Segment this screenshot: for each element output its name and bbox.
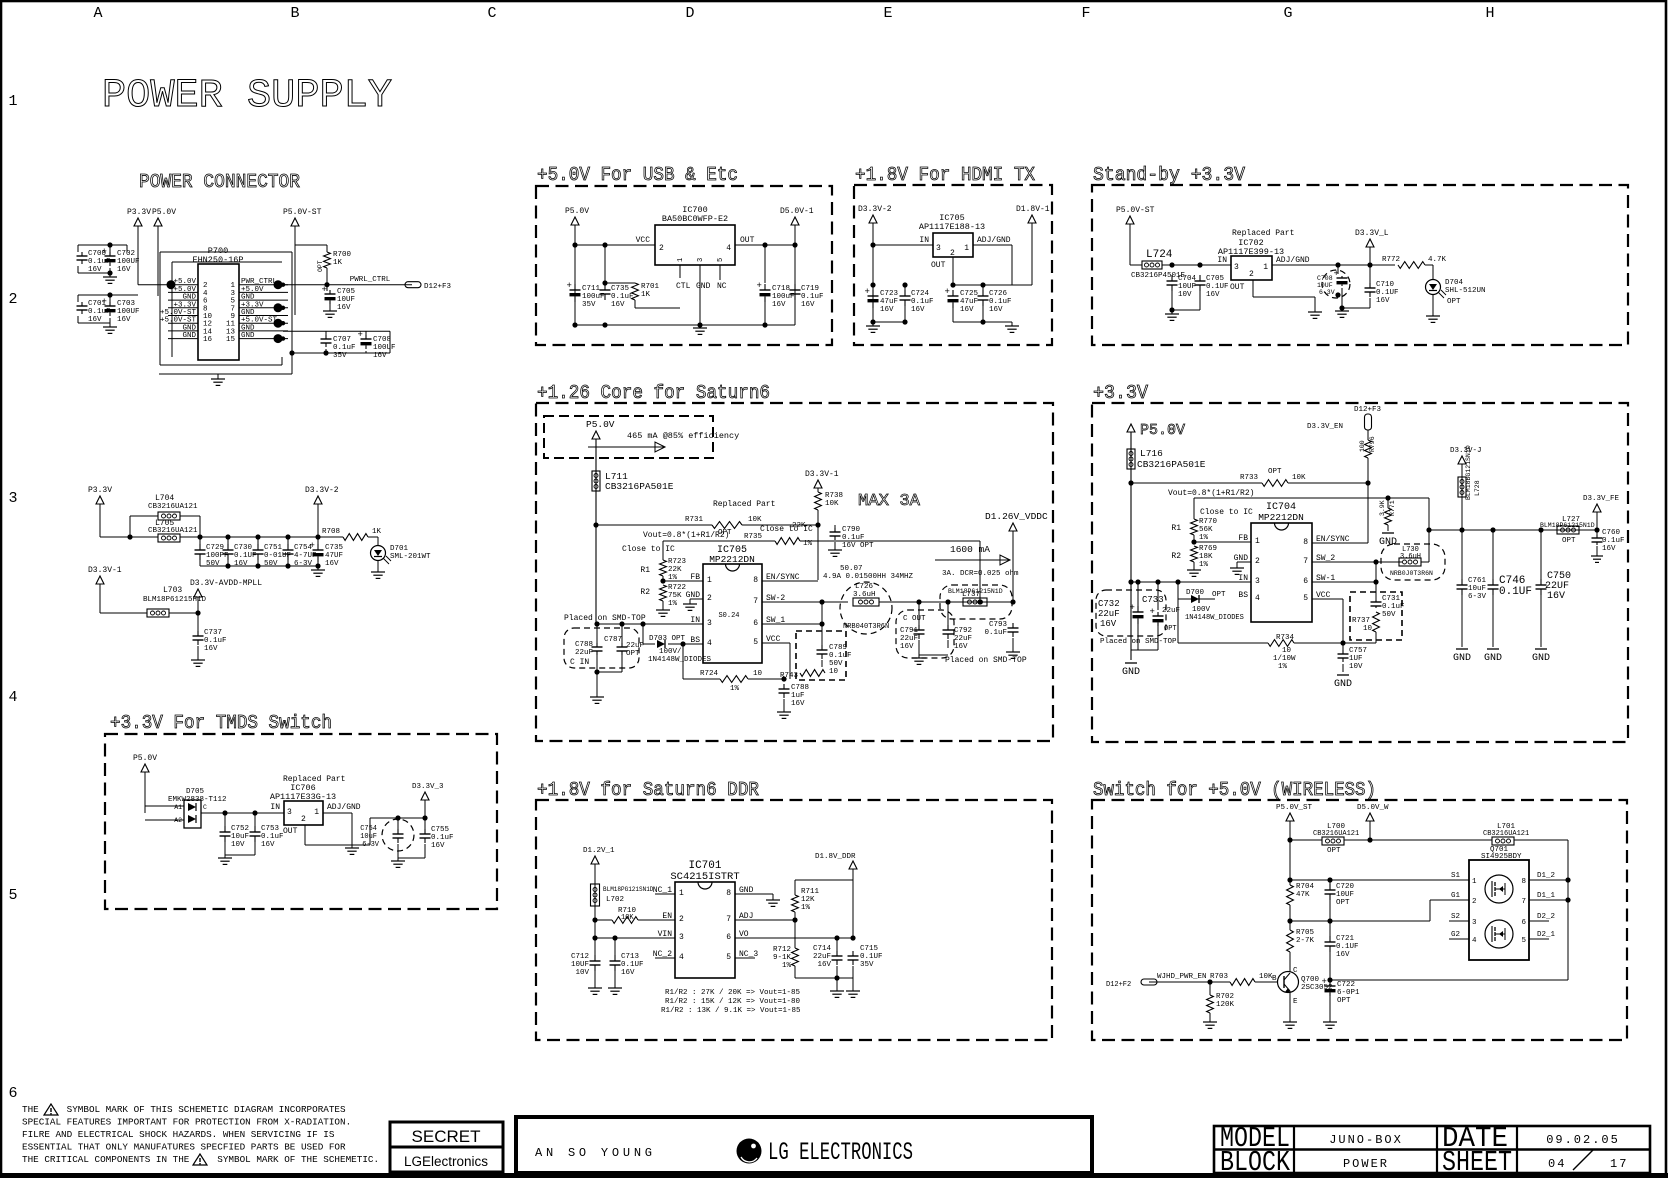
- svg-text:D3.3V-AVDD-MPLL: D3.3V-AVDD-MPLL: [190, 579, 262, 588]
- svg-text:OUT: OUT: [1230, 283, 1245, 292]
- svg-text:BLM18PG121SN1D: BLM18PG121SN1D: [603, 886, 654, 893]
- svg-text:0.1UF: 0.1UF: [1336, 943, 1359, 951]
- svg-text:16V: 16V: [1547, 591, 1565, 602]
- svg-text:0.1UF: 0.1UF: [1376, 289, 1399, 297]
- svg-text:+1.26 Core for Saturn6: +1.26 Core for Saturn6: [537, 382, 770, 404]
- svg-text:C702: C702: [117, 250, 135, 258]
- svg-text:C: C: [203, 804, 207, 811]
- svg-text:1%: 1%: [1199, 561, 1209, 569]
- svg-text:16V: 16V: [960, 306, 974, 314]
- svg-text:L702: L702: [606, 896, 624, 904]
- svg-text:C735: C735: [325, 544, 344, 552]
- svg-text:POWER CONNECTOR: POWER CONNECTOR: [139, 171, 300, 193]
- svg-text:0.1uF: 0.1uF: [333, 344, 356, 352]
- svg-text:D2_2: D2_2: [1537, 913, 1555, 921]
- svg-text:10UF: 10UF: [1336, 891, 1354, 899]
- svg-text:C718: C718: [772, 285, 790, 293]
- svg-text:ADJ/GND: ADJ/GND: [1276, 256, 1310, 265]
- svg-text:4: 4: [679, 953, 684, 962]
- svg-text:R2: R2: [1171, 552, 1181, 561]
- svg-text:MP2212DN: MP2212DN: [1258, 512, 1304, 523]
- svg-text:OPT: OPT: [1447, 298, 1461, 306]
- svg-text:16V: 16V: [880, 306, 894, 314]
- svg-text:OPT: OPT: [1164, 625, 1177, 633]
- svg-text:C757: C757: [1349, 647, 1367, 655]
- svg-text:P3.3V: P3.3V: [88, 486, 112, 495]
- svg-text:CTL: CTL: [676, 282, 691, 291]
- svg-text:+: +: [1130, 603, 1135, 613]
- svg-text:8: 8: [753, 576, 758, 585]
- svg-text:4.7K: 4.7K: [1428, 256, 1447, 264]
- svg-text:3: 3: [1234, 263, 1239, 272]
- svg-text:D12+F3: D12+F3: [1354, 406, 1382, 414]
- svg-text:C722: C722: [1337, 981, 1355, 989]
- svg-text:3: 3: [1255, 577, 1260, 586]
- svg-text:A: A: [93, 5, 102, 22]
- svg-text:G1: G1: [1451, 892, 1461, 900]
- svg-text:22uF: 22uF: [626, 642, 644, 650]
- svg-text:AN SO YOUNG: AN SO YOUNG: [535, 1146, 652, 1160]
- svg-text:16V: 16V: [954, 643, 968, 651]
- svg-text:3: 3: [287, 808, 292, 817]
- svg-text:50V: 50V: [829, 660, 843, 668]
- svg-text:2: 2: [301, 815, 306, 824]
- svg-text:5: 5: [1303, 594, 1308, 603]
- svg-text:C760: C760: [1602, 529, 1621, 537]
- svg-text:+1.8V for Saturn6 DDR: +1.8V for Saturn6 DDR: [537, 779, 759, 801]
- svg-text:R712: R712: [773, 946, 791, 954]
- svg-text:R1/R2 : 13K / 9.1K => Vout=1-8: R1/R2 : 13K / 9.1K => Vout=1-85: [661, 1007, 801, 1015]
- svg-text:L704: L704: [155, 494, 174, 503]
- svg-text:D1_2: D1_2: [1537, 872, 1555, 880]
- svg-text:E: E: [1293, 998, 1298, 1006]
- svg-text:16V: 16V: [911, 306, 925, 314]
- svg-text:R737: R737: [1352, 617, 1370, 625]
- svg-text:POWER SUPPLY: POWER SUPPLY: [102, 74, 392, 119]
- svg-text:C719: C719: [801, 285, 819, 293]
- svg-text:OPT: OPT: [1562, 537, 1576, 545]
- svg-text:0.1UF: 0.1UF: [1206, 283, 1229, 291]
- svg-text:Replaced Part: Replaced Part: [713, 500, 775, 509]
- svg-text:C701: C701: [88, 300, 107, 308]
- svg-text:IN: IN: [1217, 256, 1227, 265]
- svg-text:2: 2: [8, 291, 17, 308]
- svg-text:04: 04: [1548, 1157, 1566, 1171]
- svg-text:0.1uF: 0.1uF: [1382, 603, 1405, 611]
- svg-text:1: 1: [707, 576, 712, 585]
- svg-text:+: +: [310, 541, 315, 551]
- svg-text:Close to IC: Close to IC: [1200, 508, 1253, 517]
- svg-text:R771: R771: [1389, 500, 1396, 516]
- svg-text:2: 2: [950, 249, 955, 258]
- svg-text:1UF: 1UF: [1349, 655, 1363, 663]
- svg-text:P5.0V: P5.0V: [152, 208, 176, 217]
- svg-text:C712: C712: [571, 953, 589, 961]
- svg-text:10K: 10K: [748, 516, 762, 524]
- svg-text:D3.3V_EN: D3.3V_EN: [1307, 423, 1343, 431]
- svg-text:+: +: [358, 330, 363, 340]
- svg-text:SHEET: SHEET: [1442, 1146, 1512, 1178]
- svg-text:C714: C714: [813, 945, 832, 953]
- svg-text:+5.0V For USB & Etc: +5.0V For USB & Etc: [537, 164, 738, 186]
- svg-text:D5.0V_W: D5.0V_W: [1357, 804, 1389, 812]
- svg-text:16V: 16V: [817, 961, 831, 969]
- svg-text:1K: 1K: [333, 259, 343, 267]
- svg-text:R1/R2 : 27K / 20K => Vout=1-85: R1/R2 : 27K / 20K => Vout=1-85: [665, 989, 801, 997]
- svg-text:Placed on SMD-TOP: Placed on SMD-TOP: [564, 614, 646, 623]
- svg-text:C755: C755: [431, 826, 450, 834]
- svg-text:2: 2: [1255, 557, 1260, 566]
- svg-text:10: 10: [1282, 647, 1292, 655]
- svg-text:L716: L716: [1140, 448, 1163, 459]
- svg-text:C OUT: C OUT: [903, 615, 926, 623]
- svg-text:R722: R722: [668, 584, 686, 592]
- svg-text:6-3V: 6-3V: [294, 560, 313, 568]
- svg-text:6-3V: 6-3V: [1319, 289, 1335, 296]
- svg-text:+: +: [945, 287, 950, 297]
- svg-text:16V: 16V: [621, 969, 635, 977]
- svg-text:16V: 16V: [431, 842, 445, 850]
- svg-text:16V: 16V: [204, 645, 218, 653]
- svg-text:3: 3: [936, 244, 941, 253]
- svg-text:4: 4: [707, 639, 712, 648]
- svg-text:1N4148W_DIODES: 1N4148W_DIODES: [648, 656, 712, 664]
- svg-text:OPT: OPT: [1268, 468, 1282, 476]
- svg-text:C752: C752: [231, 825, 249, 833]
- svg-text:BS: BS: [1238, 591, 1248, 600]
- svg-text:R735: R735: [744, 533, 763, 541]
- svg-text:10V: 10V: [575, 969, 589, 977]
- svg-text:SPECIAL FEATURES IMPORTANT FOR: SPECIAL FEATURES IMPORTANT FOR PROTECTIO…: [22, 1117, 351, 1128]
- svg-text:12K: 12K: [801, 896, 815, 904]
- svg-text:D703 OPT: D703 OPT: [649, 635, 686, 643]
- svg-text:5: 5: [717, 258, 725, 262]
- svg-text:C730: C730: [234, 544, 253, 552]
- svg-text:10V: 10V: [1178, 291, 1192, 299]
- svg-text:Stand-by +3.3V: Stand-by +3.3V: [1093, 164, 1246, 186]
- svg-text:22uF: 22uF: [575, 649, 593, 657]
- svg-text:10UF: 10UF: [1317, 282, 1333, 289]
- svg-text:C721: C721: [1336, 935, 1355, 943]
- svg-text:6: 6: [726, 933, 731, 942]
- svg-text:OPT: OPT: [1212, 591, 1226, 599]
- svg-text:1uF: 1uF: [791, 692, 805, 700]
- svg-text:22uF: 22uF: [900, 635, 918, 643]
- svg-text:+: +: [567, 281, 572, 291]
- svg-text:GND: GND: [1379, 537, 1397, 548]
- svg-text:D705: D705: [186, 788, 205, 796]
- svg-text:VCC: VCC: [636, 236, 651, 245]
- svg-text:10UF: 10UF: [571, 961, 589, 969]
- svg-text:R1: R1: [640, 566, 650, 575]
- svg-text:C732: C732: [1098, 599, 1120, 609]
- svg-text:+: +: [1150, 607, 1155, 617]
- svg-text:2: 2: [659, 244, 664, 253]
- svg-text:6: 6: [1303, 577, 1308, 586]
- svg-text:ADJ/GND: ADJ/GND: [977, 236, 1011, 245]
- svg-text:R723: R723: [668, 558, 687, 566]
- svg-text:2: 2: [707, 594, 712, 603]
- svg-text:D12+F2: D12+F2: [1106, 981, 1131, 989]
- svg-text:2: 2: [1472, 898, 1477, 906]
- svg-text:47uF: 47uF: [960, 298, 978, 306]
- svg-text:R738: R738: [825, 492, 843, 500]
- svg-text:15: 15: [226, 336, 236, 344]
- svg-text:C754: C754: [360, 825, 377, 833]
- svg-text:D1.2V_1: D1.2V_1: [583, 847, 615, 855]
- svg-text:C788: C788: [575, 641, 593, 649]
- svg-text:16V: 16V: [1100, 619, 1117, 629]
- svg-text:5: 5: [8, 887, 17, 904]
- svg-text:CB3216PA501E: CB3216PA501E: [1137, 459, 1206, 470]
- svg-text:D3.3V-2: D3.3V-2: [305, 486, 339, 495]
- svg-text:0.1UF: 0.1UF: [1499, 586, 1532, 598]
- svg-text:1: 1: [1472, 878, 1477, 886]
- svg-text:+: +: [865, 287, 870, 297]
- svg-text:D1_1: D1_1: [1537, 892, 1556, 900]
- svg-text:0.1uF: 0.1uF: [88, 308, 111, 316]
- svg-text:50V: 50V: [1382, 611, 1396, 619]
- svg-text:4: 4: [726, 244, 731, 253]
- svg-text:16V: 16V: [1336, 951, 1350, 959]
- svg-text:C733: C733: [1142, 595, 1164, 605]
- svg-text:C715: C715: [860, 945, 879, 953]
- svg-text:100UF: 100UF: [373, 344, 396, 352]
- svg-text:A2: A2: [174, 817, 182, 824]
- svg-text:6-0P1: 6-0P1: [1337, 989, 1360, 997]
- svg-text:22uF: 22uF: [954, 635, 972, 643]
- svg-text:FB: FB: [690, 573, 700, 582]
- svg-text:C725: C725: [960, 290, 979, 298]
- svg-text:BLM18P61215H1D: BLM18P61215H1D: [143, 596, 207, 604]
- svg-text:L726: L726: [855, 583, 874, 591]
- svg-text:1%: 1%: [801, 904, 811, 912]
- svg-text:C724: C724: [911, 290, 930, 298]
- svg-text:OPT: OPT: [1327, 847, 1341, 855]
- svg-text:D12+F3: D12+F3: [424, 283, 452, 291]
- svg-text:CB3216UA121: CB3216UA121: [148, 503, 198, 511]
- svg-text:LGElectronics: LGElectronics: [404, 1154, 488, 1169]
- svg-text:100: 100: [1359, 440, 1366, 452]
- svg-text:P5.0V: P5.0V: [133, 754, 157, 763]
- svg-text:OPT: OPT: [1336, 899, 1350, 907]
- svg-text:16V: 16V: [1602, 545, 1616, 553]
- svg-text:+: +: [322, 285, 327, 295]
- svg-text:16V: 16V: [791, 700, 805, 708]
- svg-text:17: 17: [1610, 1157, 1628, 1171]
- svg-text:L728: L728: [1474, 480, 1481, 496]
- svg-text:10: 10: [1363, 625, 1373, 633]
- svg-text:4: 4: [1255, 594, 1260, 603]
- svg-text:C788: C788: [791, 684, 809, 692]
- svg-text:L724: L724: [1146, 249, 1173, 261]
- svg-text:G: G: [1283, 5, 1292, 22]
- svg-text:D704: D704: [1445, 279, 1464, 287]
- svg-text:5: 5: [753, 638, 758, 647]
- svg-text:R1: R1: [1171, 524, 1181, 533]
- svg-text:GND: GND: [1334, 679, 1352, 690]
- svg-text:BLM18BG121SN1D: BLM18BG121SN1D: [1465, 445, 1472, 500]
- svg-text:E: E: [883, 5, 892, 22]
- svg-text:R711: R711: [801, 888, 820, 896]
- svg-text:R769: R769: [1199, 545, 1217, 553]
- svg-text:EHN250-16P: EHN250-16P: [192, 255, 243, 265]
- svg-text:3.9K: 3.9K: [1379, 500, 1386, 516]
- svg-text:D2_1: D2_1: [1537, 931, 1556, 939]
- svg-text:C789: C789: [829, 644, 847, 652]
- svg-text:P5.0V-ST: P5.0V-ST: [283, 208, 322, 217]
- svg-text:10uF: 10uF: [1468, 585, 1486, 593]
- svg-text:8: 8: [1303, 538, 1308, 547]
- svg-text:D3.3V_FE: D3.3V_FE: [1583, 495, 1620, 503]
- svg-text:GND: GND: [1532, 653, 1550, 664]
- svg-text:C707: C707: [333, 336, 351, 344]
- svg-text:+3.3V For TMDS Switch: +3.3V For TMDS Switch: [110, 712, 332, 734]
- svg-text:C790: C790: [842, 526, 861, 534]
- svg-text:16V: 16V: [117, 316, 131, 324]
- svg-text:1600 mA: 1600 mA: [950, 544, 990, 555]
- svg-text:C IN: C IN: [570, 658, 589, 667]
- svg-text:OUT: OUT: [931, 261, 946, 270]
- svg-text:OUT: OUT: [283, 827, 298, 836]
- svg-text:4: 4: [8, 689, 17, 706]
- svg-text:MAX 3A: MAX 3A: [858, 492, 921, 511]
- svg-text:GND: GND: [1453, 653, 1471, 664]
- svg-text:WJHD_PWR_EN: WJHD_PWR_EN: [1157, 973, 1207, 981]
- svg-text:3: 3: [8, 490, 17, 507]
- svg-text:50.07: 50.07: [840, 565, 863, 573]
- svg-text:D1.8V-1: D1.8V-1: [1016, 205, 1050, 214]
- svg-text:Placed on SMD-TOP: Placed on SMD-TOP: [945, 656, 1027, 665]
- svg-text:16V: 16V: [337, 304, 351, 312]
- svg-text:+: +: [1334, 269, 1339, 279]
- svg-text:R770: R770: [1199, 518, 1218, 526]
- svg-text:D3.3V_L: D3.3V_L: [1355, 229, 1389, 238]
- svg-text:6-3V: 6-3V: [362, 841, 380, 849]
- svg-text:C713: C713: [621, 953, 640, 961]
- svg-text:100UF: 100UF: [117, 258, 140, 266]
- svg-text:1: 1: [677, 258, 685, 262]
- svg-text:6: 6: [1521, 919, 1526, 927]
- svg-text:1N4148W_DIODES: 1N4148W_DIODES: [1185, 614, 1244, 622]
- svg-text:4: 4: [1472, 937, 1477, 945]
- svg-text:7: 7: [1521, 898, 1526, 906]
- svg-text:0.1uF: 0.1uF: [431, 834, 454, 842]
- svg-text:100PF: 100PF: [206, 552, 229, 560]
- svg-text:SML-201WT: SML-201WT: [390, 553, 431, 561]
- svg-text:09.02.05: 09.02.05: [1546, 1133, 1620, 1147]
- svg-text:P5.0V-ST: P5.0V-ST: [1116, 206, 1155, 215]
- svg-text:R1/R2 : 15K / 12K => Vout=1-80: R1/R2 : 15K / 12K => Vout=1-80: [665, 998, 801, 1006]
- svg-text:1: 1: [964, 244, 969, 253]
- svg-text:22K: 22K: [792, 522, 806, 530]
- svg-text:POWER: POWER: [1343, 1157, 1389, 1171]
- svg-text:4.9A 0.01500HH 34MHZ: 4.9A 0.01500HH 34MHZ: [823, 573, 914, 581]
- svg-text:3: 3: [679, 933, 684, 942]
- svg-text:1/10W: 1/10W: [1273, 655, 1296, 663]
- svg-text:10K: 10K: [825, 500, 839, 508]
- svg-text:D3.3V-2: D3.3V-2: [858, 205, 892, 214]
- svg-text:16: 16: [203, 336, 213, 344]
- svg-text:5: 5: [1521, 937, 1526, 945]
- svg-text:C737: C737: [204, 629, 222, 637]
- svg-text:0.1UF: 0.1UF: [860, 953, 883, 961]
- svg-text:AP1117E188-13: AP1117E188-13: [919, 222, 985, 232]
- svg-text:47UF: 47UF: [325, 552, 343, 560]
- svg-text:2: 2: [679, 915, 684, 924]
- svg-text:P3.3V: P3.3V: [127, 208, 151, 217]
- svg-text:16V: 16V: [772, 301, 786, 309]
- svg-text:Placed on SMD-TOP: Placed on SMD-TOP: [1100, 638, 1177, 646]
- svg-text:FB: FB: [1238, 534, 1248, 543]
- svg-text:C723: C723: [880, 290, 899, 298]
- svg-text:BLOCK: BLOCK: [1220, 1146, 1290, 1178]
- svg-text:PWRL_CTRL: PWRL_CTRL: [350, 276, 391, 284]
- svg-text:47K: 47K: [1296, 891, 1310, 899]
- svg-text:0.1uF: 0.1uF: [261, 833, 284, 841]
- svg-text:C751: C751: [264, 544, 283, 552]
- svg-text:0.1uF: 0.1uF: [829, 652, 852, 660]
- svg-text:9-1K: 9-1K: [773, 954, 792, 962]
- svg-text:R703: R703: [1210, 973, 1229, 981]
- svg-text:NRB0J0T3R6N: NRB0J0T3R6N: [1390, 570, 1433, 577]
- svg-text:F: F: [1081, 5, 1090, 22]
- svg-text:C704: C704: [1178, 275, 1197, 283]
- svg-text:D5.0V-1: D5.0V-1: [780, 207, 814, 216]
- svg-text:H: H: [1485, 5, 1494, 22]
- svg-text:16V: 16V: [900, 643, 914, 651]
- svg-text:D3.3V-1: D3.3V-1: [88, 566, 122, 575]
- svg-text:0.1uF: 0.1uF: [611, 293, 634, 301]
- svg-text:C710: C710: [1376, 281, 1395, 289]
- svg-text:NRB040T3R6N: NRB040T3R6N: [843, 623, 889, 631]
- svg-text:D700: D700: [1186, 589, 1205, 597]
- svg-text:0.1uF: 0.1uF: [801, 293, 824, 301]
- svg-text:35V: 35V: [860, 961, 874, 969]
- svg-text:+3.3V: +3.3V: [1093, 382, 1149, 404]
- svg-text:1: 1: [679, 889, 684, 898]
- svg-text:R708: R708: [322, 528, 340, 536]
- svg-text:OPT: OPT: [626, 650, 640, 658]
- svg-text:A1: A1: [174, 804, 182, 811]
- svg-text:7: 7: [1303, 557, 1308, 566]
- svg-text:1%: 1%: [730, 685, 740, 693]
- svg-text:3: 3: [707, 619, 712, 628]
- svg-text:OUT: OUT: [740, 236, 755, 245]
- svg-text:SECRET: SECRET: [412, 1127, 481, 1146]
- svg-text:16V: 16V: [1376, 297, 1390, 305]
- svg-text:8: 8: [1521, 878, 1526, 886]
- svg-text:R705: R705: [1296, 929, 1315, 937]
- svg-text:D701: D701: [390, 545, 409, 553]
- svg-text:NC: NC: [717, 282, 727, 291]
- svg-text:S1: S1: [1451, 872, 1461, 880]
- svg-text:R2: R2: [640, 588, 650, 597]
- svg-text:IN: IN: [270, 803, 280, 812]
- svg-text:16V: 16V: [801, 301, 815, 309]
- svg-text:G2: G2: [1451, 931, 1460, 939]
- svg-text:VIN: VIN: [658, 930, 673, 939]
- svg-text:S0.24: S0.24: [718, 612, 739, 620]
- svg-text:6: 6: [753, 619, 758, 628]
- svg-text:16V: 16V: [611, 301, 625, 309]
- svg-text:465 mA @85% efficiency: 465 mA @85% efficiency: [627, 431, 739, 441]
- svg-text:50V: 50V: [264, 560, 278, 568]
- svg-text:C: C: [487, 5, 496, 22]
- svg-text:C735: C735: [611, 285, 630, 293]
- svg-text:100V/: 100V/: [659, 648, 682, 656]
- svg-text:16V: 16V: [989, 306, 1003, 314]
